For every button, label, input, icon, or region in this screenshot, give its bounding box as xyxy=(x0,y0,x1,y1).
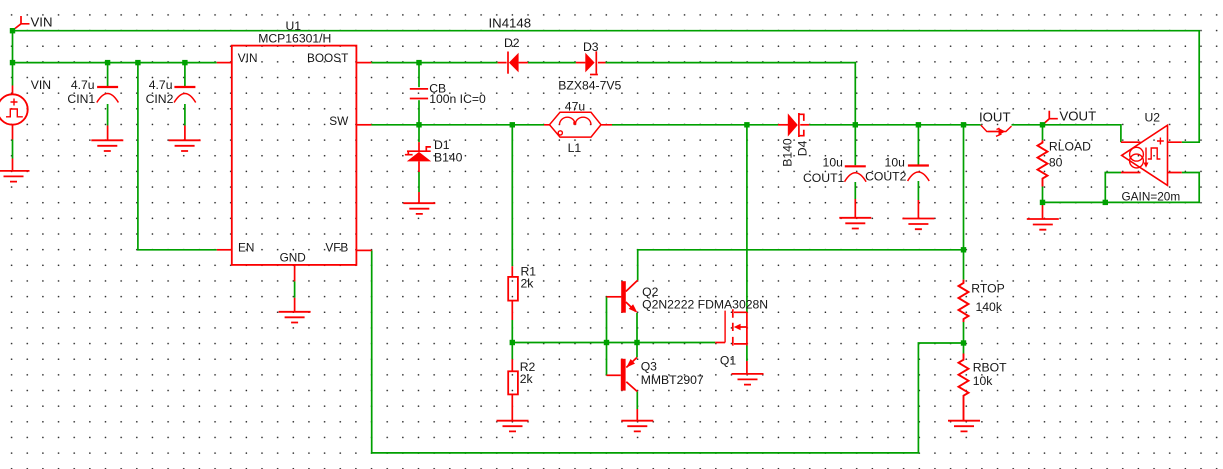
wire L1 to D4 xyxy=(612,124,778,126)
node junction R1 top xyxy=(510,122,515,127)
svg-text:L1: L1 xyxy=(568,141,582,155)
svg-text:SW: SW xyxy=(329,114,349,128)
svg-text:EN: EN xyxy=(238,240,254,254)
svg-text:VIN: VIN xyxy=(31,78,51,92)
svg-text:VIN: VIN xyxy=(31,15,53,30)
U1 pin VFB stub xyxy=(356,249,371,251)
svg-text:D4: D4 xyxy=(796,140,810,156)
svg-text:COUT2: COUT2 xyxy=(865,170,907,184)
svg-text:BOOST: BOOST xyxy=(307,51,348,65)
svg-text:RTOP: RTOP xyxy=(971,282,1004,296)
wire RTOP top xyxy=(963,125,965,280)
ground below R2 xyxy=(497,421,529,432)
diode D2 IN4148 xyxy=(498,52,528,74)
node junction collector row xyxy=(961,247,966,252)
wire VIN rail to U1 xyxy=(13,62,217,64)
node junction VIN rail xyxy=(10,60,15,65)
svg-text:VIN: VIN xyxy=(238,51,258,65)
svg-text:D2: D2 xyxy=(504,36,520,50)
wire feedback net to VFB xyxy=(372,250,964,453)
node junction COUT2 xyxy=(916,122,921,127)
capacitor CB xyxy=(410,89,428,99)
wire VIN flag column xyxy=(12,31,14,63)
node junction COUT1 xyxy=(853,122,858,127)
wire D2 to D3 xyxy=(528,62,576,64)
node junction base column xyxy=(604,340,609,345)
wire BOOST to D2 xyxy=(371,62,497,64)
svg-text:U2: U2 xyxy=(1145,110,1161,124)
wire RTOP bottom xyxy=(963,322,965,343)
transistor Q2 NPN xyxy=(607,280,638,313)
COUT1 lead xyxy=(854,199,856,218)
current marker IOUT xyxy=(981,125,1012,136)
wire V1 top lead xyxy=(12,63,14,86)
svg-text:VFB: VFB xyxy=(325,240,348,254)
wire node row to Q1 gate xyxy=(512,342,715,344)
wire D3 to output rail xyxy=(606,63,856,125)
U1 pin EN stub xyxy=(217,249,232,251)
capacitor CIN1 leads xyxy=(107,126,109,141)
voltage source V1 xyxy=(0,86,28,171)
svg-text:10k: 10k xyxy=(973,374,994,388)
svg-text:80: 80 xyxy=(1049,155,1063,169)
capacitor CIN1 xyxy=(97,87,119,103)
svg-text:VOUT: VOUT xyxy=(1060,109,1097,124)
Q1 ground lead xyxy=(746,361,748,374)
svg-text:BZX84-7V5: BZX84-7V5 xyxy=(558,79,621,93)
wire CB bottom xyxy=(418,100,420,125)
wire Q3 emitter up xyxy=(636,343,638,358)
wire COUT1 bottom xyxy=(854,182,856,199)
U1 pin GND stub xyxy=(294,265,296,282)
node junction CIN2 xyxy=(182,60,187,65)
svg-text:2k: 2k xyxy=(520,372,534,386)
ground below U1 xyxy=(279,312,311,323)
ground below RBOT xyxy=(948,421,980,432)
svg-text:MCP16301/H: MCP16301/H xyxy=(258,31,331,45)
ground below COUT1 xyxy=(839,218,871,229)
ground below RLOAD xyxy=(1042,202,1044,218)
U1 pin VIN stub xyxy=(217,62,232,64)
svg-text:Q3: Q3 xyxy=(641,360,657,374)
node junction divider mid xyxy=(961,340,966,345)
ground below CIN2 xyxy=(169,140,201,151)
wire D1 top xyxy=(418,125,420,142)
power flag VIN xyxy=(15,16,30,29)
svg-text:10u: 10u xyxy=(885,155,905,169)
resistor RLOAD zigzag xyxy=(1038,140,1048,186)
resistor RTOP zigzag xyxy=(959,280,969,322)
node junction CB bottom xyxy=(416,122,421,127)
wire D4 to IOUT marker xyxy=(809,124,981,126)
ground below Q1 xyxy=(732,374,764,385)
wire CIN1 bottom xyxy=(107,104,109,126)
node junction CB top xyxy=(416,60,421,65)
node junction RTOP xyxy=(961,122,966,127)
node junction Q1 drain xyxy=(744,122,749,127)
diode D4 B140 schottky xyxy=(778,113,809,137)
ground below Q3 xyxy=(621,421,653,432)
svg-text:RBOT: RBOT xyxy=(973,361,1007,375)
svg-text:4.7u: 4.7u xyxy=(149,78,173,92)
wire COUT2 bottom xyxy=(917,181,919,200)
wire CIN2 bottom xyxy=(184,104,186,126)
svg-text:2k: 2k xyxy=(521,277,535,291)
node junction VOUT xyxy=(1040,122,1045,127)
capacitor CIN2 xyxy=(174,87,196,103)
node junction U2 out xyxy=(1103,200,1108,205)
ground below V1 xyxy=(0,171,30,182)
wire VIN top rail to U2 plus input xyxy=(13,31,1200,143)
wire node row to R2 xyxy=(511,343,513,360)
svg-text:MMBT2907: MMBT2907 xyxy=(641,373,704,387)
wire SW to L1 xyxy=(371,124,544,126)
svg-text:RLOAD: RLOAD xyxy=(1049,140,1091,154)
svg-text:IOUT: IOUT xyxy=(979,109,1011,124)
D1 lead to ground xyxy=(418,192,420,203)
svg-text:140k: 140k xyxy=(976,300,1003,314)
svg-text:B140: B140 xyxy=(781,138,795,167)
ground below CIN1 xyxy=(91,140,123,151)
node junction emitters xyxy=(634,340,639,345)
resistor RBOT zigzag xyxy=(959,354,969,421)
wire VOUT to RLOAD xyxy=(1042,125,1044,140)
svg-text:IN4148: IN4148 xyxy=(489,15,532,30)
svg-text:D3: D3 xyxy=(583,40,599,54)
wire COUT1 top xyxy=(854,125,856,166)
ground below D1 xyxy=(403,203,435,214)
node junction CIN1 xyxy=(105,60,110,65)
op-amp U1 box MCP16301 xyxy=(232,46,357,265)
wire Q3 collector down xyxy=(636,392,638,410)
wire CIN2 top xyxy=(184,63,186,86)
wire EN net xyxy=(138,63,217,250)
gain block U2 xyxy=(1121,125,1182,185)
svg-text:B140: B140 xyxy=(434,151,463,165)
wire V1 bottom lead xyxy=(12,140,14,159)
U1 GND lead xyxy=(294,298,296,312)
power flag VOUT xyxy=(1044,111,1058,124)
wire U1 GND xyxy=(294,281,296,297)
wire Q1 source down xyxy=(746,346,748,362)
svg-text:CIN2: CIN2 xyxy=(146,92,174,106)
ground below COUT2 xyxy=(902,219,934,230)
svg-text:4.7u: 4.7u xyxy=(71,78,95,92)
node junction VIN flag xyxy=(10,28,15,33)
wire base column Q2 Q3 xyxy=(606,297,608,376)
wire D1 to ground xyxy=(418,172,420,192)
svg-text:Q2N2222 FDMA3028N: Q2N2222 FDMA3028N xyxy=(642,297,768,311)
svg-text:Q1: Q1 xyxy=(720,354,736,368)
resistor R1 xyxy=(508,266,518,320)
U1 pin BOOST stub xyxy=(356,62,371,64)
wire IOUT to U2 input xyxy=(1012,125,1121,142)
capacitor COUT1 xyxy=(845,166,867,182)
diode D3 zener BZX84-7V5 xyxy=(576,51,606,74)
diode D1 B140 schottky xyxy=(405,142,431,172)
transistor Q3 PNP xyxy=(607,357,638,391)
node junction EN xyxy=(135,60,140,65)
wire CB top xyxy=(418,63,420,88)
wire SW to R1 xyxy=(511,125,513,266)
wire Q2 emitter down xyxy=(636,313,638,343)
capacitor COUT2 xyxy=(908,166,930,182)
capacitor CIN2 leads xyxy=(184,126,186,141)
svg-text:GND: GND xyxy=(280,251,306,265)
mosfet Q1 FDMA3028N xyxy=(715,309,747,345)
wire Q2 collector to RTOP node xyxy=(638,250,964,280)
svg-text:47u: 47u xyxy=(565,100,585,114)
wire COUT2 top xyxy=(917,125,919,165)
node junction RLOAD bottom xyxy=(1040,200,1045,205)
svg-text:10u: 10u xyxy=(823,155,843,169)
wire U2 output down xyxy=(1105,173,1121,203)
inductor L1 xyxy=(544,112,612,137)
wire RLOAD bottom xyxy=(1042,187,1044,203)
svg-text:CIN1: CIN1 xyxy=(67,92,95,106)
wire R1 to node row xyxy=(511,320,513,343)
wire U2 bottom row xyxy=(1043,173,1200,203)
resistor R2 xyxy=(508,359,518,420)
U1 pin SW stub xyxy=(356,124,371,126)
node junction R1 R2 xyxy=(510,340,515,345)
wire CIN1 top xyxy=(107,63,109,86)
svg-text:100n IC=0: 100n IC=0 xyxy=(429,92,486,106)
COUT2 lead xyxy=(917,200,919,218)
Q3 ground lead xyxy=(636,409,638,420)
svg-text:GAIN=20m: GAIN=20m xyxy=(1122,190,1181,204)
wire Q1 drain to output rail xyxy=(746,125,748,312)
wire RBOT top xyxy=(963,343,965,354)
svg-text:COUT1: COUT1 xyxy=(803,171,845,185)
